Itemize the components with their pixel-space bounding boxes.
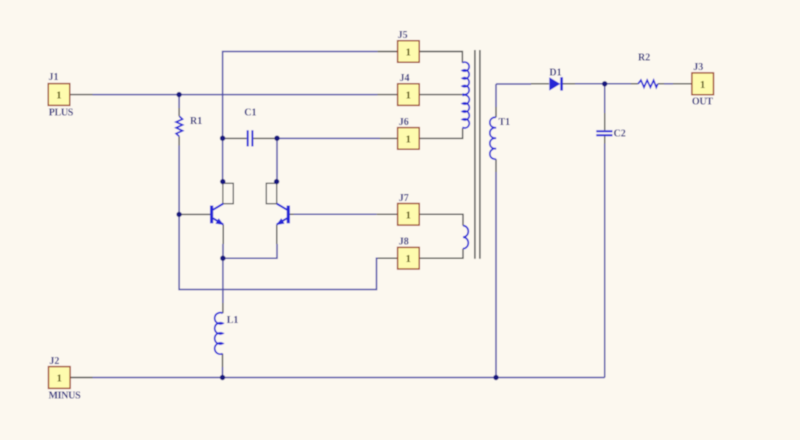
svg-text:1: 1 [56, 373, 62, 385]
svg-text:L1: L1 [227, 315, 239, 326]
svg-text:C2: C2 [614, 128, 626, 139]
svg-text:D1: D1 [549, 67, 561, 78]
svg-text:J8: J8 [399, 237, 409, 248]
svg-text:1: 1 [406, 209, 412, 221]
svg-text:J5: J5 [398, 30, 408, 41]
svg-text:J4: J4 [400, 73, 410, 84]
svg-text:J6: J6 [399, 117, 409, 128]
svg-text:1: 1 [406, 133, 412, 145]
svg-text:J3: J3 [693, 62, 703, 73]
svg-text:MINUS: MINUS [49, 390, 82, 401]
svg-text:1: 1 [700, 79, 706, 91]
svg-text:1: 1 [406, 47, 412, 59]
svg-text:1: 1 [406, 90, 412, 102]
svg-text:J2: J2 [49, 356, 59, 367]
svg-text:R2: R2 [638, 53, 650, 64]
svg-text:C1: C1 [244, 108, 256, 119]
svg-text:J1: J1 [49, 72, 59, 83]
svg-text:R1: R1 [190, 116, 202, 127]
svg-text:OUT: OUT [692, 96, 713, 107]
svg-text:J7: J7 [399, 193, 409, 204]
svg-text:PLUS: PLUS [49, 108, 74, 119]
svg-text:T1: T1 [499, 117, 511, 128]
svg-text:1: 1 [406, 253, 412, 265]
svg-text:1: 1 [56, 90, 62, 102]
